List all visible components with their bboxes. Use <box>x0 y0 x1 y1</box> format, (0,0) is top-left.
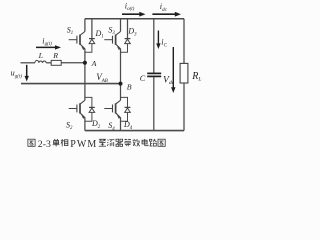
svg-text:R: R <box>52 51 58 60</box>
capacitor C <box>147 72 161 74</box>
svg-text:PWM: PWM <box>70 139 97 150</box>
wire top dc rail <box>85 18 184 20</box>
svg-text:C: C <box>140 74 146 83</box>
caption: 图 2-3 单相 PWM 整流器等效电路图 <box>28 139 165 150</box>
transistor S2 <box>69 100 85 119</box>
wire between L and R <box>46 62 51 64</box>
wire S3 collector <box>120 19 122 32</box>
current arrow i_g(t) <box>36 46 56 48</box>
wire load branch top <box>183 19 185 64</box>
wire S2 emitter to bottom rail <box>84 117 86 130</box>
wire D1 bottom lead <box>85 43 92 52</box>
wire D3 bottom lead <box>121 43 128 52</box>
node B <box>119 82 123 86</box>
node A <box>83 61 87 65</box>
wire bottom source line to node B <box>21 83 121 85</box>
wire S1 emitter to node A <box>84 49 86 63</box>
wire D4 bottom lead <box>121 112 128 121</box>
current arrow i_dc <box>152 13 175 15</box>
wire S4 top jog to D4 <box>121 97 128 107</box>
resistor R <box>51 60 61 65</box>
wire D2 bottom lead <box>85 112 92 121</box>
resistor R_L <box>180 63 188 83</box>
wire S2 top jog to D2 <box>85 97 92 107</box>
source voltage arrow u_g(t) <box>26 65 28 77</box>
transistor S4 <box>104 100 120 119</box>
wire load branch bottom <box>183 83 185 131</box>
wire S4 emitter to bottom rail <box>120 117 122 130</box>
wire R to node A <box>61 62 85 64</box>
wire D3 top lead <box>127 19 129 39</box>
diode D3 <box>125 39 131 44</box>
diode D1 <box>89 39 95 44</box>
wire capacitor branch bottom <box>153 77 155 131</box>
inductor L <box>35 60 46 62</box>
diode D2 <box>89 107 95 112</box>
transistor S3 <box>104 32 120 51</box>
voltage arrow V_dc <box>172 47 174 88</box>
wire bottom dc rail <box>85 130 184 132</box>
wire capacitor branch top <box>153 19 155 73</box>
wire S1 collector <box>84 19 86 32</box>
diode D4 <box>125 107 131 112</box>
svg-text:B: B <box>127 83 132 92</box>
current arrow i_C <box>157 31 159 45</box>
svg-text:A: A <box>91 59 97 68</box>
wire top source line <box>21 62 36 64</box>
transistor S1 <box>69 32 85 51</box>
wire node B to S4 <box>120 84 122 101</box>
svg-text:L: L <box>38 51 43 60</box>
wire S3 emitter to node B <box>120 49 122 84</box>
svg-text:2-3: 2-3 <box>38 139 51 150</box>
current arrow i_o(t) <box>122 13 140 15</box>
wire node A to S2 <box>84 63 86 101</box>
wire D1 top lead <box>91 19 93 39</box>
